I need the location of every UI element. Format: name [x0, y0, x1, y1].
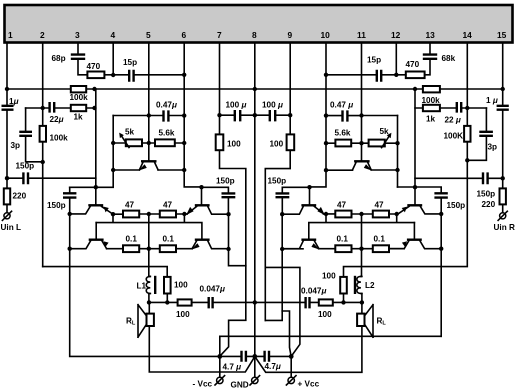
wire: pin4 stub	[112, 43, 114, 76]
wire: driver base net right y=222.6	[309, 214, 415, 239]
node column x=397.5	[397, 116, 399, 188]
resistor 470 (right)	[406, 72, 425, 79]
capacitor 22u (left)	[50, 102, 55, 113]
svg-text:22μ: 22μ	[50, 115, 64, 124]
wire: pin5 column	[148, 43, 150, 116]
svg-text:GND: GND	[231, 381, 249, 389]
svg-text:1 μ: 1 μ	[486, 96, 498, 105]
capacitor 0.47u (left)	[164, 110, 169, 121]
svg-text:47: 47	[163, 201, 173, 210]
svg-text:100: 100	[270, 140, 284, 149]
terminal Uin L	[4, 213, 10, 219]
svg-text:3p: 3p	[488, 143, 498, 152]
svg-text:470: 470	[87, 62, 101, 71]
svg-text:15p: 15p	[123, 58, 137, 67]
wire: pin8 GND column	[254, 43, 256, 357]
capacitor 150p (right lag)	[434, 193, 447, 197]
svg-text:0.1: 0.1	[163, 235, 175, 244]
speaker RL (left)	[148, 302, 150, 313]
wire: Q3/Q4 collector drop x=228.5	[229, 214, 246, 266]
wire: supply rail segments y=356.4	[220, 355, 291, 357]
svg-text:L2: L2	[365, 281, 375, 290]
svg-text:10: 10	[321, 30, 331, 40]
wire: pin1 column	[6, 43, 8, 213]
inductor L1	[146, 276, 150, 293]
wire: y=170 line	[113, 169, 184, 171]
resistor 0.1 (L a)	[123, 245, 139, 252]
wire: Zobel line left y=302.4	[149, 301, 255, 303]
svg-text:150p: 150p	[477, 190, 496, 199]
wire: 470/15p line y=74.8	[104, 74, 184, 76]
svg-text:14: 14	[463, 30, 473, 40]
svg-text:+ Vcc: + Vcc	[298, 380, 320, 389]
wire: pin15 column	[502, 43, 504, 213]
wire: pin11 column	[361, 43, 363, 161]
svg-text:0.1: 0.1	[337, 235, 349, 244]
wire: output row1 right y=214	[323, 213, 397, 215]
terminal +Vcc	[290, 356, 292, 377]
resistor 220 (right)	[500, 188, 506, 204]
svg-text:4: 4	[111, 30, 116, 40]
svg-text:5k: 5k	[125, 128, 135, 137]
terminal GND	[254, 356, 256, 377]
resistor 0.1 (L b)	[160, 245, 176, 252]
resistor 47 (R b)	[373, 211, 389, 218]
svg-text:6: 6	[182, 30, 187, 40]
node column x=415	[414, 89, 416, 187]
capacitor 68p	[71, 55, 85, 59]
capacitor 150p (left lag)	[63, 193, 76, 197]
node column x=113.2	[112, 116, 114, 188]
svg-text:1μ: 1μ	[9, 97, 19, 106]
svg-text:100k: 100k	[70, 93, 89, 102]
capacitor 150p (input right)	[483, 172, 488, 184]
speaker RL (right)	[361, 302, 363, 313]
resistor 0.1 (R b)	[373, 245, 389, 252]
wire: pin9 +Vcc feed jog	[265, 267, 300, 356]
capacitor 4.7u (left supply)	[242, 351, 246, 362]
svg-text:13: 13	[426, 30, 436, 40]
resistor 100 (right damping vertical)	[340, 277, 347, 294]
wire: right speaker return to GND	[255, 326, 362, 372]
IC U1 body	[5, 5, 513, 43]
svg-text:0.047μ: 0.047μ	[301, 287, 327, 296]
IC pin numbers	[8, 30, 507, 40]
capacitor 150p (input left)	[23, 172, 28, 184]
wire: feedback branch to 100 vert	[43, 267, 168, 277]
wire: pin9 column	[265, 43, 290, 321]
resistor 0.1 (R a)	[335, 245, 351, 252]
wire: feedback branch right	[344, 142, 468, 277]
wire: Q3'/Q4' collector drop x=282.2	[281, 214, 283, 311]
svg-text:11: 11	[357, 30, 366, 40]
svg-text:1k: 1k	[426, 115, 436, 124]
svg-text:150p: 150p	[216, 177, 235, 186]
resistor 100k (left vertical)	[40, 126, 46, 142]
capacitor 3p (right)	[467, 108, 486, 160]
capacitor 150p (right middle)	[276, 193, 290, 197]
svg-text:0.047μ: 0.047μ	[200, 285, 226, 294]
svg-text:7: 7	[217, 30, 222, 40]
svg-text:8: 8	[252, 30, 257, 40]
svg-text:5k: 5k	[380, 127, 390, 136]
svg-text:470: 470	[406, 60, 420, 69]
wire: bias line y=89 pin1 to pin15	[7, 88, 503, 90]
wire: output row1 y=214	[113, 213, 187, 215]
wire: 1k/22u line right y=108	[415, 107, 486, 109]
wire: pin5 base link	[148, 116, 150, 161]
svg-text:L1: L1	[137, 282, 147, 291]
capacitor 0.47u (right)	[343, 110, 348, 121]
transistor Q5' (right vbe multiplier)	[354, 160, 370, 162]
wire: Q1' base net y=187.2	[398, 186, 442, 188]
svg-text:150p: 150p	[268, 177, 287, 186]
resistor 100 (pin7 vertical)	[216, 134, 224, 150]
svg-text:0.1: 0.1	[126, 235, 138, 244]
wire: pin6 column with jog	[184, 43, 201, 187]
svg-text:100: 100	[227, 140, 241, 149]
wire: L2 feed column x=361.5	[361, 214, 363, 276]
wire: output row2 right y=248.7	[282, 248, 404, 250]
svg-text:2: 2	[40, 30, 45, 40]
svg-text:9: 9	[288, 30, 293, 40]
svg-text:47: 47	[337, 201, 347, 210]
svg-text:12: 12	[391, 30, 401, 40]
transistor Q1	[95, 187, 97, 204]
wire: 5k/5.6k line y=143	[113, 142, 184, 144]
svg-text:150p: 150p	[16, 162, 35, 171]
svg-text:220: 220	[482, 200, 496, 209]
svg-text:4.7 μ: 4.7 μ	[223, 363, 242, 372]
resistor 47 (R a)	[335, 211, 351, 218]
resistor 1k (left)	[71, 105, 86, 111]
svg-text:5: 5	[146, 30, 151, 40]
terminal Uin R	[500, 213, 506, 219]
capacitor 15p (right)	[377, 70, 381, 82]
emitter rail right x=441.2	[440, 214, 442, 336]
resistor 100K (right vertical)	[464, 126, 470, 142]
resistor 100k (left bias)	[71, 86, 86, 92]
svg-text:Uin R: Uin R	[494, 223, 515, 232]
transistor Q5 (left vbe multiplier)	[141, 160, 157, 162]
svg-text:100K: 100K	[444, 132, 464, 141]
wire: Q3'/Q4' collector feed jog	[265, 311, 291, 356]
capacitor 1u (right)	[497, 106, 509, 110]
wire: Zobel line right y=302.4	[255, 301, 362, 303]
svg-text:0.47 μ: 0.47 μ	[330, 101, 353, 110]
capacitor 100u (right)	[270, 110, 275, 121]
svg-text:68k: 68k	[442, 54, 456, 63]
capacitor 0.047u (right)	[306, 297, 310, 308]
capacitor 100u (left)	[235, 110, 240, 121]
capacitor 22u (right)	[457, 102, 461, 113]
svg-text:5.6k: 5.6k	[335, 129, 351, 138]
transistor Q2	[95, 223, 97, 239]
svg-text:22 μ: 22 μ	[445, 116, 461, 125]
svg-text:1k: 1k	[74, 113, 84, 122]
resistor 1k (right)	[423, 105, 440, 111]
resistor 100 (right Zobel)	[319, 299, 333, 305]
transistor Q2'	[413, 223, 415, 239]
resistor 100 (left Zobel)	[178, 299, 192, 305]
potentiometer 5k (right)	[369, 140, 385, 147]
svg-text:4.7μ: 4.7μ	[265, 362, 281, 371]
capacitor 4.7u (right supply)	[265, 351, 269, 362]
svg-text:5.6k: 5.6k	[159, 129, 175, 138]
svg-text:0.1: 0.1	[374, 235, 386, 244]
wire: input RC line y=178.2	[7, 177, 96, 179]
svg-text:47: 47	[375, 201, 385, 210]
svg-text:15p: 15p	[367, 56, 381, 65]
potentiometer 5k (left)	[126, 139, 142, 146]
svg-text:100: 100	[176, 310, 190, 319]
svg-text:0.47μ: 0.47μ	[156, 101, 177, 110]
resistor 470 (left)	[87, 72, 104, 79]
wire: right speaker bus y=336.3	[220, 336, 441, 356]
wire: pin14 column	[466, 43, 468, 126]
svg-text:100k: 100k	[422, 96, 441, 105]
wire: pin12 stub	[395, 43, 397, 76]
svg-text:100k: 100k	[50, 134, 69, 143]
wire: pin13 column + 68k	[425, 43, 430, 75]
svg-text:100 μ: 100 μ	[226, 101, 247, 110]
transistor Q3'	[309, 187, 311, 204]
svg-text:1: 1	[8, 30, 13, 40]
svg-text:100: 100	[174, 281, 188, 290]
svg-text:100: 100	[322, 272, 336, 281]
svg-text:15: 15	[497, 30, 507, 40]
resistor 47 (L b)	[160, 211, 176, 218]
wire: 100u line right	[255, 114, 290, 116]
resistor 100 (pin9 vertical)	[287, 134, 295, 150]
wire: driver base net y=222.6	[96, 214, 202, 239]
wire: output row2 y=248.7	[107, 248, 193, 250]
svg-text:Uin L: Uin L	[1, 223, 21, 232]
emitter rail left x=69.7	[70, 214, 220, 357]
terminal -Vcc	[219, 356, 221, 377]
capacitor 15p (left)	[129, 70, 133, 82]
transistor Q3	[201, 187, 203, 204]
capacitor 1u (left)	[2, 106, 14, 110]
svg-text:3: 3	[75, 30, 80, 40]
wire: 470/15p line right y=74.8	[326, 74, 406, 76]
svg-text:3p: 3p	[11, 141, 21, 150]
resistor 5.6k (left)	[155, 139, 175, 146]
resistor 47 (L a)	[123, 211, 139, 218]
capacitor 68k (right, as printed)	[423, 55, 437, 59]
wire: L1 feed column x=148.8	[148, 214, 150, 276]
wire: 5.6k/5k line right y=143.2	[326, 142, 398, 144]
capacitor 150p (left middle)	[222, 193, 236, 197]
wire: pin10 column with jog	[310, 43, 327, 187]
resistor 100k (right bias)	[423, 86, 440, 92]
transistor Q4	[195, 238, 210, 240]
wire: input RC line right y=178.3	[415, 177, 503, 179]
svg-text:150p: 150p	[447, 201, 466, 210]
capacitor 3p (left)	[26, 108, 43, 162]
svg-text:100 μ: 100 μ	[262, 101, 283, 110]
wire: y=170 line right	[326, 169, 398, 171]
svg-text:100: 100	[318, 310, 332, 319]
transistor Q4'	[301, 238, 316, 240]
wire: pin2 column	[42, 43, 44, 267]
wire: pin7 column	[220, 43, 246, 357]
wire: pin3 column + 68p	[78, 43, 87, 75]
wire: 0.47u line right y=115.5	[326, 115, 398, 117]
wire: 22u/1k line y=108	[26, 107, 95, 109]
resistor 220 (left)	[4, 188, 10, 204]
resistor 100 (left damping vertical)	[164, 277, 171, 294]
inductor L2	[357, 276, 361, 293]
svg-text:47: 47	[125, 201, 135, 210]
resistor 5.6k (right)	[335, 140, 351, 147]
svg-text:68p: 68p	[52, 54, 66, 63]
svg-text:- Vcc: - Vcc	[193, 380, 213, 389]
svg-text:220: 220	[13, 192, 27, 201]
wire: 0.47u line y=115.5	[113, 115, 184, 117]
svg-text:150p: 150p	[47, 201, 66, 210]
wire: 100u line left	[220, 114, 255, 116]
node column x=95.8	[95, 89, 97, 187]
transistor Q1'	[414, 187, 416, 204]
wire: left speaker return to GND	[149, 326, 255, 372]
wire: Q1 base net y=187.2	[70, 186, 114, 188]
capacitor 0.047u (left)	[209, 297, 213, 308]
